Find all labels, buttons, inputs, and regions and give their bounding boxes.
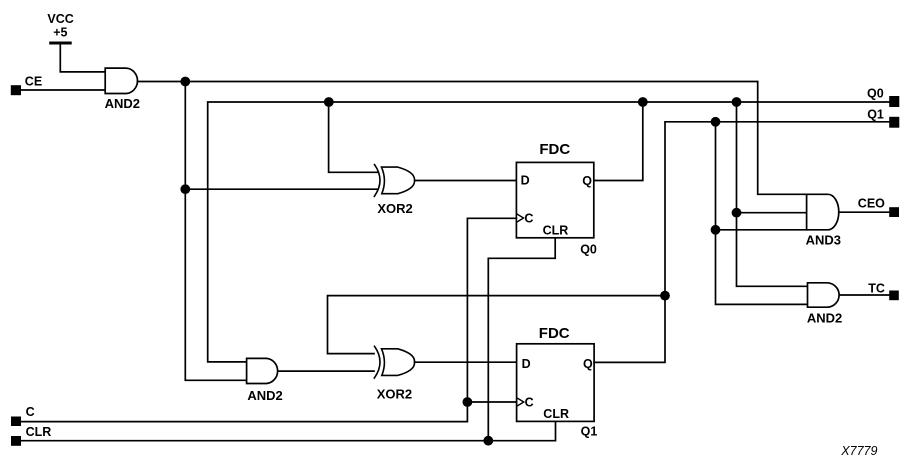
output pad Q1 (867, 108, 899, 128)
svg-text:C: C (26, 405, 35, 419)
junction dot U1 output column (180, 77, 190, 87)
wire U1 output across top to AND3 top input (138, 82, 807, 195)
svg-text:XOR2: XOR2 (377, 386, 412, 401)
svg-text:C: C (525, 395, 534, 409)
svg-text:Q: Q (583, 357, 593, 371)
wire junction to XOR2 X1 bottom input (185, 188, 378, 190)
wire net Q0 bus from pad to AND2 U2 top input (208, 102, 890, 362)
svg-text:XOR2: XOR2 (377, 201, 412, 216)
wire U2 output to XOR2 X2 bottom input (279, 370, 374, 372)
and-gate U6 AND2 (TC) (807, 283, 842, 326)
wire FDC1 Q output up to net Q0 (594, 102, 643, 181)
svg-text:CE: CE (25, 74, 42, 88)
svg-text:X7779: X7779 (840, 444, 877, 458)
flip-flop U4 FDC (bit 1) (517, 325, 598, 439)
wire net Q0 down to AND2 U6 top input (737, 102, 808, 286)
svg-text:AND2: AND2 (247, 388, 282, 403)
wire junction to FDC2 clock input (467, 401, 516, 403)
junction dot AND3 middle branch (732, 208, 742, 218)
junction dot Q0 at AND column (732, 97, 742, 107)
svg-text:Q: Q (582, 174, 592, 188)
junction dot Q1 feedback (660, 291, 670, 301)
wire CLR net from pad to FDC2 CLR pin (21, 421, 556, 440)
and-gate U2 AND2 (247, 358, 283, 402)
svg-text:CLR: CLR (26, 425, 52, 439)
wire CE pad to AND2 U1 bottom input (21, 89, 106, 91)
xor-gate X1 XOR2 (374, 165, 414, 216)
wire net Q1 down to AND2 U6 bottom input (716, 122, 808, 305)
svg-text:Q0: Q0 (580, 243, 597, 257)
wire AND3 output to CEO pad (839, 211, 889, 213)
power symbol VCC +5 (47, 12, 73, 43)
input pad CE (11, 74, 42, 95)
junction dot XOR1 bottom branch (180, 184, 190, 194)
svg-text:FDC: FDC (539, 141, 570, 158)
junction dot Q0 at FDC1 Q column (638, 97, 648, 107)
wire XOR1 output to FDC1 D input (415, 180, 516, 182)
svg-text:AND3: AND3 (806, 233, 841, 248)
svg-text:AND2: AND2 (105, 96, 140, 111)
svg-text:+5: +5 (53, 26, 67, 40)
svg-text:VCC: VCC (47, 12, 73, 26)
and-gate U1 AND2 (105, 68, 140, 111)
wire Q0 down to XOR2 X1 top input (329, 102, 378, 172)
wire Q1 feedback to XOR2 X2 top input (328, 296, 666, 354)
svg-text:CLR: CLR (543, 224, 569, 238)
wire U1 output down to AND2 U2 bottom input (185, 82, 247, 381)
wire junction to AND3 U5 middle input (737, 212, 807, 214)
svg-text:D: D (521, 173, 530, 187)
input pad C (11, 405, 35, 426)
junction dot Q1 at AND column (711, 117, 721, 127)
svg-text:D: D (522, 357, 531, 371)
output pad TC (868, 281, 899, 300)
junction dot Q0 to XOR1 (324, 97, 334, 107)
wire C net to FDC1 clock input (21, 218, 516, 421)
output pad CEO (858, 197, 899, 217)
junction dot CLR net (483, 436, 493, 446)
junction dot C net to FDC2 clock (463, 397, 473, 407)
flip-flop U3 FDC (bit 0) (516, 141, 597, 257)
junction dot AND3 bottom branch (711, 225, 721, 235)
input pad CLR (11, 425, 51, 446)
svg-text:C: C (524, 211, 533, 225)
svg-text:CEO: CEO (858, 197, 885, 211)
and-gate U5 AND3 (806, 194, 841, 247)
output pad Q0 (867, 87, 899, 107)
xor-gate X2 XOR2 (374, 346, 414, 401)
svg-text:Q0: Q0 (867, 87, 884, 101)
wire net Q1 from pad down to FDC2 Q output (594, 122, 889, 363)
svg-text:CLR: CLR (543, 407, 569, 421)
wire VCC symbol to AND2 U1 top input (60, 44, 106, 72)
svg-text:TC: TC (868, 281, 885, 295)
wire XOR2 output to FDC2 D input (415, 361, 517, 363)
wire AND2 U6 output to TC pad (840, 294, 890, 296)
wire junction to AND3 U5 bottom input (716, 229, 807, 231)
wire FDC1 CLR pin down to CLR net (488, 238, 555, 441)
svg-text:AND2: AND2 (807, 311, 842, 326)
svg-text:Q1: Q1 (867, 108, 884, 122)
svg-text:Q1: Q1 (581, 424, 598, 438)
svg-text:FDC: FDC (539, 325, 570, 342)
